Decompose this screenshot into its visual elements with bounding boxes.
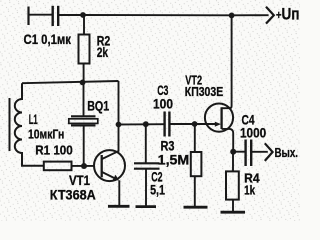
inductor L1 <box>15 83 44 166</box>
L1 core <box>9 98 11 151</box>
capacitor C1 <box>52 6 54 26</box>
wire <box>170 123 217 125</box>
capacitor C2 <box>145 124 147 163</box>
svg-text:L1: L1 <box>29 112 38 127</box>
wire <box>29 14 53 16</box>
resistor R2 <box>83 15 85 35</box>
node B (VT2 drain / +Un rail) <box>229 13 235 19</box>
node G (R3/gate) <box>192 121 198 127</box>
ground (C2) <box>136 205 157 208</box>
resistor R1 <box>44 162 72 171</box>
wire top rail <box>83 14 232 16</box>
transistor VT1 <box>94 150 125 181</box>
resistor R3 <box>194 124 196 152</box>
node D (base VT1 / BQ1 / R1) <box>81 163 87 169</box>
node A (C1/R2) <box>80 12 86 18</box>
svg-text:R3: R3 <box>161 139 175 154</box>
wire mid-left rail <box>22 81 119 83</box>
arrow output <box>265 143 273 161</box>
node C (R2/BQ1/L1) <box>80 80 86 86</box>
node H (source/R4/C4) <box>230 149 236 155</box>
wire <box>118 81 120 152</box>
node F (C2 tap) <box>143 121 149 127</box>
transistor VT2 <box>205 104 233 132</box>
svg-text:C1 0,1мк: C1 0,1мк <box>24 32 72 47</box>
svg-text:100: 100 <box>153 97 173 112</box>
svg-text:10мкГн: 10мкГн <box>28 126 64 141</box>
wire mid rail <box>119 123 165 125</box>
svg-text:1k: 1k <box>244 183 256 198</box>
capacitor C4 <box>233 151 245 153</box>
arrow +Un <box>266 7 274 24</box>
input terminal bar <box>27 7 29 26</box>
svg-text:5,1: 5,1 <box>150 183 165 198</box>
wire <box>72 165 95 167</box>
svg-text:1,5M: 1,5M <box>158 153 190 168</box>
svg-text:R1 100: R1 100 <box>35 143 72 158</box>
node E (collector VT1) <box>116 122 122 128</box>
wire <box>232 14 269 16</box>
ground (R4) <box>221 211 246 214</box>
ground (R3) <box>184 206 208 209</box>
svg-text:КП303Е: КП303Е <box>185 84 224 99</box>
svg-text:КТ368А: КТ368А <box>50 187 96 203</box>
capacitor C3 <box>163 112 165 137</box>
ground (VT1 emitter) <box>108 205 130 208</box>
svg-text:BQ1: BQ1 <box>87 99 109 114</box>
crystal BQ1 <box>83 82 85 116</box>
svg-text:2k: 2k <box>97 45 109 60</box>
svg-text:1000: 1000 <box>240 126 266 141</box>
svg-text:Вых.: Вых. <box>275 145 299 160</box>
svg-text:Uп: Uп <box>282 6 300 24</box>
resistor R4 <box>232 152 234 172</box>
wire <box>58 14 83 16</box>
